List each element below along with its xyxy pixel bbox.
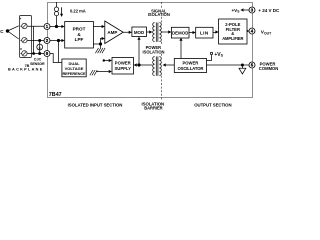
svg-text:7B47: 7B47: [49, 92, 62, 98]
svg-text:+ 24 V DC: + 24 V DC: [258, 8, 280, 13]
wire power supply to mod feed: [137, 64, 152, 66]
wire supply stub upper (input common): [103, 59, 105, 61]
wire pin2 to junction: [50, 40, 62, 42]
svg-text:x: x: [20, 47, 22, 51]
wire DEMOD to LIN: [189, 32, 193, 34]
svg-text:COMMON: COMMON: [259, 66, 279, 71]
terminal 4: [249, 28, 255, 34]
wire MOD to signal transformer: [147, 31, 150, 33]
wire screw1 to pin 1: [21, 25, 45, 27]
screw terminal +IN: [22, 23, 27, 28]
wire feed up to MOD: [138, 40, 140, 66]
CJC sensor (current source symbol): [37, 41, 43, 54]
wire transformer to DEMOD: [161, 31, 169, 33]
transformer T1 signal isolation: [153, 23, 162, 42]
terminal 5: [249, 62, 255, 68]
wire PROT to AMP top input: [93, 26, 101, 28]
wire arrow into PROT & LPF top input: [61, 25, 64, 28]
wire input to +IN screw: [8, 26, 19, 31]
block POWER SUPPLY: [112, 58, 134, 75]
T/C input junction dot: [6, 29, 9, 32]
wire terminal bus: [33, 26, 35, 53]
op-amp AMP: [105, 21, 123, 44]
svg-text:+VS: +VS: [214, 52, 223, 58]
svg-text:BACKPLANE: BACKPLANE: [8, 68, 44, 72]
node junction dot CJC bottom: [38, 52, 41, 55]
wire pin1 to junction: [50, 26, 62, 28]
wire PROT bottom output: [93, 43, 100, 45]
wire arrow into PROT & LPF lower input: [61, 39, 64, 42]
wire oscillator to terminal 5: [207, 64, 250, 66]
node junction dot CJC top: [38, 39, 41, 42]
svg-text:AMP: AMP: [107, 30, 117, 35]
node junction dot PROT common: [99, 42, 102, 45]
svg-text:SUPPLY: SUPPLY: [115, 66, 132, 71]
screw terminal -IN: [22, 38, 27, 43]
svg-text:POWER: POWER: [115, 61, 131, 66]
module outline 7B47: [48, 3, 253, 98]
node junction dot at pin1 wire: [55, 25, 58, 28]
svg-text:AMPLIFIER: AMPLIFIER: [222, 36, 243, 41]
svg-text:+VS: +VS: [231, 8, 240, 14]
block DEMOD: [171, 27, 189, 38]
wire input to -IN screw: [8, 31, 19, 39]
node +Vs open circle: [210, 52, 212, 54]
pin 1: [44, 24, 50, 30]
block LIN: [196, 27, 213, 38]
block DUAL VOLTAGE REFERENCE: [62, 59, 86, 77]
transformer T2 power isolation: [153, 57, 162, 76]
svg-text:0.22 mA: 0.22 mA: [70, 8, 86, 13]
svg-text:POWER: POWER: [182, 61, 198, 66]
svg-text:ISOLATED INPUT SECTION: ISOLATED INPUT SECTION: [68, 102, 123, 107]
node junction dot power common: [241, 64, 244, 67]
svg-text:LPF: LPF: [75, 37, 84, 42]
block PROT & LPF: [65, 22, 94, 49]
svg-text:SENSOR: SENSOR: [30, 62, 45, 66]
wire junction up into AMP lower input: [101, 39, 102, 45]
arrow 0.22 mA direction: [60, 7, 63, 17]
wire CJC row to pin 0: [21, 53, 45, 55]
block 2-POLE FILTER & AMPLIFIER: [219, 19, 247, 44]
svg-text:OUTPUT SECTION: OUTPUT SECTION: [194, 102, 231, 107]
wire AMP to MOD: [123, 31, 129, 33]
pin 0: [44, 51, 50, 57]
block MOD: [132, 27, 147, 37]
wire ground to POWER SUPPLY: [96, 71, 109, 73]
wire power osc to transformer: [166, 64, 175, 66]
svg-text:C: C: [0, 29, 4, 34]
node junction dot power feed: [137, 63, 140, 66]
svg-text:LIN: LIN: [200, 31, 209, 36]
svg-text:OSCILLATOR: OSCILLATOR: [177, 66, 203, 71]
wire LIN to filter: [213, 32, 216, 34]
wire pin0 to reference: [50, 54, 62, 63]
wire filter to terminal 4: [247, 30, 249, 32]
block POWER OSCILLATOR: [174, 59, 206, 73]
svg-text:ISOLATION: ISOLATION: [143, 49, 165, 54]
ground input common (hatched): [95, 44, 105, 53]
terminal 3: [249, 7, 255, 13]
pin 2: [44, 38, 50, 44]
svg-text:MOD: MOD: [134, 30, 144, 35]
wire screw2 to pin 2: [21, 39, 45, 41]
ground output common (triangle): [239, 65, 246, 74]
wire oscillator feed up to DEMOD: [180, 41, 182, 59]
wire oscillator to +Vs stub: [207, 55, 212, 61]
svg-text:+: +: [19, 17, 21, 21]
svg-text:DEMOD: DEMOD: [172, 31, 189, 36]
wire terminal 3 to +Vs: [244, 9, 249, 11]
node junction dot bus to CJC row: [32, 52, 35, 55]
terminal block (field side): [20, 16, 32, 58]
svg-text:REFERENCE: REFERENCE: [62, 71, 86, 76]
ground input common 2 (hatched): [90, 70, 98, 75]
svg-text:ISOLATION: ISOLATION: [148, 12, 170, 17]
node junction dot pin2 wire: [57, 39, 60, 42]
svg-text:VOUT: VOUT: [261, 30, 272, 36]
screw terminal CJC: [22, 51, 27, 56]
svg-text:BARRIER: BARRIER: [144, 106, 162, 111]
wire pin2 junction down to reference: [58, 41, 60, 63]
current source 0.22 mA: [54, 2, 58, 27]
isolation barrier dashed line: [161, 2, 163, 99]
